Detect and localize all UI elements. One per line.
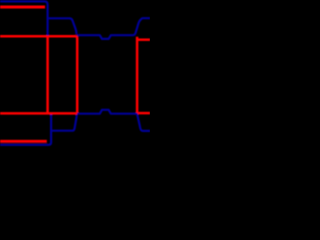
fold line B2 upper tuck-flap crease with diagonal shoulder	[49, 18, 77, 34]
cut line R2 main upper horizontal with corner down to middle vertical	[0, 36, 77, 113]
fold line B4 bottom edge with corner up to left vertical	[0, 115, 51, 145]
fold line B6 lower crease with thumb notch and right drop	[77, 110, 150, 131]
cut line R7 lower-right horizontal	[138, 112, 150, 115]
cut line R4 main lower horizontal	[0, 112, 77, 115]
cut line R3 left vertical	[46, 36, 49, 113]
cut line R5 right vertical	[136, 37, 139, 115]
cut line R6 upper-right horizontal	[137, 38, 151, 41]
fold line B5 lower tuck-flap crease with diagonal shoulder	[52, 115, 77, 131]
cut line R1 top-left	[0, 6, 45, 9]
cut line R8 bottom-left horizontal	[0, 140, 47, 143]
fold line B1 top edge with corner down to left vertical	[0, 1, 48, 35]
fold line B3 upper crease with thumb notch and right riser	[77, 18, 150, 39]
